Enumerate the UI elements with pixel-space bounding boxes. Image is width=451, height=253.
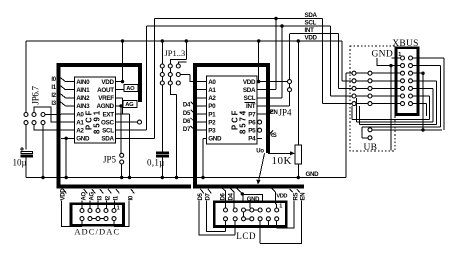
jumper JP1..3 pins (3 cols x 3 rows) [160,64,164,68]
wire I2 flag to ADC/DAC [105,201,107,209]
wire GND drop inside dashed outline [390,66,392,151]
jumper pins column B left of XBUS [368,71,372,75]
capacitor C2 bottom plate [157,155,169,157]
wire capacitor C2 to ground rail [161,157,163,178]
svg-text:GND: GND [208,136,222,143]
capacitor C1 top plate (electrolytic) [21,152,33,154]
connector J1 pins top row [80,209,84,213]
wire XBUS right-side wrap row2 [362,66,440,136]
connector J2 pins top row [224,208,228,212]
svg-text:GND: GND [306,171,320,178]
wire U1 A0 A1 A2 GND pin stubs [61,113,75,115]
wire VDD rail to JP1 column [161,39,164,42]
wire XBUS right-side wrap row1 [372,58,444,130]
wire U1 AGND pin stub [116,105,124,107]
potentiometer R1 body [295,145,302,164]
svg-text:JP5: JP5 [103,154,117,164]
arrow Uo reference to ground bus [259,153,265,180]
svg-text:RS: RS [293,192,299,200]
wire U2 GND pin down to ground rail [203,138,207,177]
svg-text:SCL: SCL [102,128,114,135]
svg-text:D6: D6 [183,119,191,125]
wire RS flag to LCD [277,201,295,228]
svg-text:GND: GND [76,136,90,143]
svg-text:AIN2: AIN2 [76,95,90,102]
wire U2 VDD pin to top rail and JP4 [257,81,287,83]
wire U2 P4 pin stub [257,137,262,139]
wire VDD riser down to XBUS row [341,41,343,81]
overline on U2 INT pin label [245,102,256,104]
svg-text:AIN3: AIN3 [76,103,90,110]
connector J1 pins bottom row [80,217,84,221]
wire R1 top to VDD rail [297,41,299,145]
wire U1 VDD pin to top rail [116,81,123,83]
svg-text:P4: P4 [248,136,256,143]
wire capacitor C1 to ground rail [25,157,27,178]
wire U2 SCL pin to SCL rail [257,26,282,98]
wire U2 P7 pin stub to module edge [257,113,266,115]
svg-text:P3: P3 [208,128,216,135]
svg-text:VDD: VDD [305,35,318,42]
svg-text:A0: A0 [76,111,84,118]
svg-text:AO: AO [81,191,87,200]
svg-text:AG: AG [89,191,95,200]
connector JP6/JP7 pins (2 rows x 3 cols) [24,113,28,117]
jumper pins column A left of XBUS [352,71,356,75]
wire XBUS pin 1 stub [392,57,401,59]
wire JP6 right-top pin to A0 of U1 [45,114,61,116]
wire D4 flag to LCD [233,192,235,208]
wire JP1 column links and down to capacitor C2 [161,68,163,152]
svg-text:SDA: SDA [305,12,318,19]
wire INT top rail [290,33,339,35]
wire GND riser from ground rail up to XBUS row [345,73,347,177]
wire U2 A0 A1 A2 pin stubs [195,81,207,83]
wire SDA top rail [155,18,323,20]
svg-text:AOUT: AOUT [97,87,114,94]
wire EN flag to LCD [260,201,301,244]
svg-text:SDA: SDA [243,87,256,94]
capacitor C2 top plate [157,152,169,154]
svg-text:D5: D5 [198,192,204,200]
svg-text:RS: RS [269,133,277,139]
wire U1 EXT pin down to ground rail [116,114,130,178]
connector XBUS box [396,48,418,115]
capacitor C1 bottom plate [21,155,33,157]
svg-text:1: 1 [117,206,120,212]
wire LCD pin to RS line [267,221,269,228]
svg-text:D4: D4 [183,103,191,109]
wire U1 GND pin down to ground rail [65,138,67,177]
wire U1 OSC pin stub [116,121,138,123]
wire U1 SDA pin to SDA rail [116,19,155,139]
junction dots on ground rail [41,176,44,179]
svg-text:D7: D7 [183,127,191,133]
terminal circle on U2 P6 [258,120,262,124]
wire JP7 middle-bottom pin to A2 of U1 [34,125,61,130]
connector J1 ADC/DAC box [71,204,124,226]
jumper pins column B lower pair [368,128,372,132]
svg-text:VDD: VDD [276,193,287,199]
svg-text:INT: INT [305,27,315,34]
wire JP2 column links [169,68,171,81]
wire U2 P5 pin stub [256,129,258,131]
svg-text:AIN0: AIN0 [76,79,90,86]
jumper JP5 pins [120,153,124,157]
wire U1 AIN0-AIN3 pin stubs [66,81,75,83]
svg-text:INT: INT [246,103,256,110]
wire D7 flag to LCD [206,201,225,232]
wire AO flag to ADC/DAC [81,201,83,209]
connector J1 bottom row links [92,218,104,220]
svg-text:UB: UB [364,143,378,153]
svg-text:GND: GND [372,50,393,60]
wire SCL top rail [147,25,331,27]
svg-text:8574: 8574 [239,109,248,134]
svg-text:SCL: SCL [305,20,317,27]
module outline U1 board (thick bus), PCF8591 section [59,65,192,187]
IC U2 PCF8574 body [207,76,258,144]
net flag RS under module 2 bus [290,189,293,192]
net flag AO on AOUT [124,84,138,91]
svg-text:D7: D7 [206,192,212,200]
svg-text:A2: A2 [76,128,84,135]
wire INT riser down to XBUS row [338,34,340,89]
module outline U2 board (thick bus), PCF8574 section [195,65,304,187]
svg-text:SDA: SDA [101,136,114,143]
wire U1 AOUT pin stub [116,89,125,91]
wire D6 flag to LCD [225,192,227,208]
svg-text:EN: EN [270,110,278,116]
svg-text:P5: P5 [248,128,256,135]
wire VDD top rail [26,40,342,42]
wire JP6 middle-top pin to A1 of U1 [34,107,61,122]
svg-text:A0: A0 [208,79,216,86]
svg-text:AG: AG [125,102,134,108]
IC U1 PCF8591 body [75,77,116,143]
jumper JP4 pins [288,80,292,84]
svg-text:P2: P2 [208,119,216,126]
wire U2 P6 pin stub [256,121,258,123]
net flags under module 2 bus (D6 D4) [223,188,226,191]
svg-text:A2: A2 [208,95,216,102]
terminal circle on U2 P5 [258,128,262,132]
net flag VDD under module 2 bus [272,188,275,192]
wire ground rail [26,177,346,179]
wire U1 SCL pin to SCL rail [116,26,147,130]
wire JP2 bottom pin down to ground rail [170,85,176,177]
wire U2 SDA pin to SDA rail [257,19,276,90]
svg-text:10µ: 10µ [13,158,27,168]
svg-text:SCL: SCL [244,95,256,102]
svg-text:AO: AO [126,86,135,92]
svg-text:A1: A1 [208,87,216,94]
connector J2 LCD box [214,202,286,227]
svg-text:OSC: OSC [101,119,114,126]
wire SDA riser down to XBUS row [322,19,324,104]
net flags I0 I1 I2 I3 at U1 analog inputs [61,78,66,82]
svg-text:D5: D5 [183,111,191,117]
wire XBUS right-side wrap row6 [352,96,430,120]
wire I1 flag to ADC/DAC [113,201,115,209]
wire JP6 bottom-left pin down to capacitor C1 [25,125,27,150]
svg-text:VDD: VDD [61,188,67,201]
svg-text:VDD: VDD [243,79,256,86]
wire JP3 top pin to VDD riser [178,62,186,64]
svg-text:ADC/DAC: ADC/DAC [74,227,120,237]
wire U1 VREF pin down to EXT net [116,98,123,114]
wire JP5 to ground rail [121,164,123,177]
svg-text:P1: P1 [208,111,216,118]
svg-text:VREF: VREF [98,95,114,102]
svg-text:EXT: EXT [102,111,114,118]
svg-text:EN: EN [300,193,306,201]
wire U2 INT pin to INT rail via JP4 [257,92,290,106]
net flag EN on module edge [270,110,274,114]
wire AG flag to ADC/DAC [89,201,91,209]
wire JP3 middle pin to U2 A0 [181,75,196,82]
svg-text:VDD: VDD [101,79,114,86]
wire JP7 right-bottom pin down to ground rail [42,125,44,178]
wire XBUS right-side wrap row3 with junction [413,73,423,130]
svg-text:P0: P0 [208,103,216,110]
wire VDD flag to ADC/DAC pin 2 [61,201,82,227]
net flag AG on AGND [123,100,137,107]
wire XBUS right-side wrap row4 [360,81,437,125]
wire XBUS right-side stub row7 [413,104,426,116]
wire SCL riser down to XBUS row [330,26,332,96]
wire GND label to XBUS pin [377,58,401,66]
svg-text:LCD: LCD [236,231,256,241]
wire XBUS net rows to connector [346,72,401,74]
net flags under module 2 bus (D5 D7) [200,189,204,193]
svg-text:JP1..3: JP1..3 [165,48,186,58]
svg-text:AGND: AGND [96,103,114,110]
net flags under module 1 bus (VDD AO AG I3 I2 I1 I0) [63,189,67,193]
svg-text:Uo: Uo [256,149,264,155]
wire R1 wiper from module Uo output [268,152,291,154]
svg-text:P6: P6 [248,119,256,126]
svg-text:P7: P7 [248,111,256,118]
svg-text:1: 1 [279,203,282,209]
wire R1 bottom to ground rail [297,164,299,178]
junction dot U1 GND pin [65,137,68,140]
net flag GND box under module 2 bus [236,188,241,193]
svg-text:AIN1: AIN1 [76,87,90,94]
wire XBUS right-side wrap row5 [357,88,434,122]
wire I3 flag to ADC/DAC [97,201,99,209]
wire U2 P0-P3 pin stubs with D4-D7 net flags [195,105,207,107]
wire JP2 top pin to VDD riser [170,41,186,64]
svg-text:JP6.7: JP6.7 [31,85,41,104]
svg-text:10K: 10K [272,155,292,167]
wire VDD flag to LCD pin 1 [275,192,276,208]
wire U1 AGND down to JP5 [120,106,122,153]
connector XBUS pins [401,56,405,60]
wire I0 flag to ADC/DAC [114,201,129,227]
wire XBUS wrap to lower pin [362,136,368,138]
connector J2 pin links [244,210,259,219]
net flag RS on module edge [270,130,274,133]
wire GND box to LCD [249,203,251,208]
dashed board outline around XBUS [350,46,395,151]
connector J2 pins bottom row [224,217,228,221]
wire D5 flag to LCD [199,201,235,235]
terminal circle on U1 OSC pin [138,120,142,124]
svg-text:JP4: JP4 [279,108,293,118]
wire VDD rail down to JP6 pin [25,41,27,112]
net flag EN under module 2 bus [297,189,300,192]
svg-text:A1: A1 [76,119,84,126]
capacitor C1 plus sign [20,147,24,151]
